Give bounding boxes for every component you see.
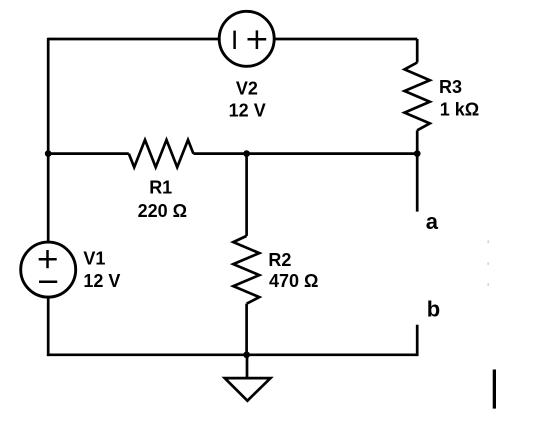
svg-text:a: a xyxy=(426,209,439,234)
wire terminal a stub xyxy=(416,154,419,212)
wire R2 column top xyxy=(245,154,248,236)
svg-text:b: b xyxy=(427,296,440,321)
resistor R2 xyxy=(233,236,259,304)
cursor artifact xyxy=(493,370,496,409)
node junction dot left xyxy=(45,150,52,157)
node junction dot bottom xyxy=(243,351,250,358)
voltage source V2 xyxy=(219,11,274,66)
voltage source V1 xyxy=(21,242,76,297)
svg-text:V1: V1 xyxy=(83,249,105,269)
wire terminal b stub xyxy=(416,325,419,356)
svg-text:R1: R1 xyxy=(149,178,172,198)
wire right column to node xyxy=(416,130,419,153)
wire top rail xyxy=(48,38,417,41)
ground xyxy=(225,355,271,401)
svg-text:470 Ω: 470 Ω xyxy=(269,271,318,291)
resistor R1 xyxy=(129,140,194,167)
wire R2 column bottom xyxy=(245,304,248,355)
resistor R3 xyxy=(405,63,430,131)
node junction dot right xyxy=(414,150,421,157)
svg-text:12 V: 12 V xyxy=(229,101,266,121)
svg-text:V2: V2 xyxy=(236,78,258,98)
wire left rail lower xyxy=(47,298,50,356)
wire middle rail xyxy=(48,152,129,155)
svg-text:R3: R3 xyxy=(439,77,462,97)
wire middle rail right xyxy=(193,152,417,155)
svg-text:12 V: 12 V xyxy=(83,271,120,291)
svg-text:1 kΩ: 1 kΩ xyxy=(440,99,479,119)
wire left rail upper xyxy=(47,38,50,241)
wire bottom rail xyxy=(47,353,417,356)
wire right column top xyxy=(416,39,419,63)
svg-text:220 Ω: 220 Ω xyxy=(138,201,187,221)
svg-text:R2: R2 xyxy=(268,250,291,270)
faint dot artifacts xyxy=(487,240,489,286)
node junction dot center xyxy=(243,150,250,157)
